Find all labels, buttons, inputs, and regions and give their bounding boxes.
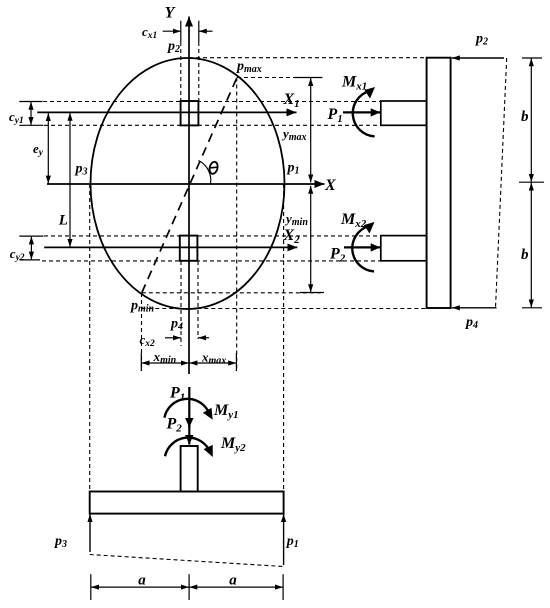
cy2 bottom tick	[19, 259, 40, 261]
b bottom tick	[522, 307, 542, 309]
dashed pressure distribution line (side)	[496, 58, 507, 308]
svg-text:b: b	[521, 247, 529, 263]
dashed vertical: ellipse left edge projection to footing	[89, 184, 91, 492]
ellipse footing outline	[91, 58, 285, 309]
xmin left tick	[140, 353, 142, 371]
dashed horizontal: column2 bottom	[42, 260, 381, 262]
dashed vertical: cx1 right extension	[198, 42, 200, 101]
xmax right tick	[235, 353, 237, 371]
cx2 arrow left (points right)	[165, 337, 181, 339]
svg-text:X: X	[324, 177, 336, 194]
cx2 arrow right (points left)	[198, 337, 209, 339]
svg-text:b: b	[521, 109, 529, 125]
Mx2 moment arc	[352, 226, 374, 271]
dashed horizontal: column1 top	[43, 101, 381, 103]
cx1 left tick	[180, 21, 182, 42]
ymin bottom tick	[300, 292, 324, 294]
P1 vertical force arrow	[188, 387, 190, 428]
left soil reaction arrow	[89, 514, 91, 552]
a left tick	[90, 574, 92, 600]
right soil reaction arrow	[283, 514, 285, 565]
a right tick	[282, 574, 284, 600]
column stub (front)	[181, 446, 198, 492]
dashed pressure distribution line (bottom)	[90, 555, 284, 567]
column stub 2	[381, 236, 427, 261]
b top tick	[522, 57, 542, 59]
dashed horizontal: pmin level	[142, 292, 322, 294]
dashed vertical: ellipse right edge projection to footing	[283, 184, 285, 492]
dashed horizontal: ellipse bottom level	[141, 308, 426, 310]
ymax dimension arrow	[310, 78, 312, 183]
X axis	[47, 183, 325, 185]
ymax top tick	[295, 77, 323, 79]
X2 axis	[44, 246, 297, 248]
X1 axis	[37, 111, 296, 113]
cx1 arrow left (points right)	[163, 30, 181, 32]
Mx1 moment arc	[353, 91, 375, 136]
a left dimension arrow	[91, 586, 189, 588]
p4 pressure arrow	[452, 307, 497, 309]
My2 moment arc	[165, 438, 209, 457]
svg-text:a: a	[138, 573, 146, 589]
xmax dimension arrow	[189, 362, 236, 364]
label theta	[208, 161, 219, 175]
cy2 top tick	[19, 235, 43, 237]
column stub 1	[381, 101, 427, 125]
dashed vertical: pmin drop line	[141, 293, 143, 371]
theta angle arc	[199, 161, 211, 184]
dashed vertical: cx2 right extension	[197, 261, 199, 339]
cy1 top tick	[19, 101, 42, 103]
dashed vertical: cx2 left extension	[180, 261, 182, 346]
cx1 right tick	[198, 21, 200, 42]
p2 pressure arrow	[452, 57, 504, 59]
ymin dimension arrow	[310, 186, 312, 292]
b lower dimension arrow	[530, 183, 532, 308]
column 2 square	[180, 236, 198, 261]
dashed horizontal: column2 top	[44, 235, 381, 237]
xmin dimension arrow	[142, 362, 189, 364]
dashed vertical: cx1 left extension	[180, 42, 182, 101]
footing rectangle (front)	[90, 492, 284, 514]
dashed horizontal: pmax level	[237, 77, 322, 79]
a right dimension arrow	[189, 586, 283, 588]
P1 force arrow	[343, 111, 380, 113]
P2 vertical force arrow	[188, 420, 190, 445]
footing side rectangle	[427, 58, 451, 308]
a center tick	[188, 574, 190, 600]
cx1 arrow right (points left)	[199, 30, 213, 32]
L dimension arrow	[69, 113, 71, 247]
ey dimension arrow	[47, 113, 49, 184]
dashed horizontal: column1 bottom	[44, 124, 381, 126]
dashed diagonal neutral axis pmin-pmax	[142, 78, 237, 293]
dashed horizontal: ellipse top level	[189, 57, 427, 59]
column 1 square	[181, 101, 199, 125]
svg-text:L: L	[58, 212, 68, 228]
dashed vertical: pmax drop line	[236, 78, 238, 372]
My1 moment arc	[164, 399, 208, 418]
b upper dimension arrow	[530, 58, 532, 182]
svg-text:a: a	[229, 573, 237, 589]
cy1 dimension arrow	[30, 102, 32, 125]
svg-text:Y: Y	[165, 5, 176, 22]
Y axis	[188, 17, 190, 375]
cy2 dimension arrow	[30, 236, 32, 259]
P2 force arrow	[344, 246, 380, 248]
cy1 bottom tick	[19, 124, 43, 126]
b middle tick	[519, 181, 544, 183]
